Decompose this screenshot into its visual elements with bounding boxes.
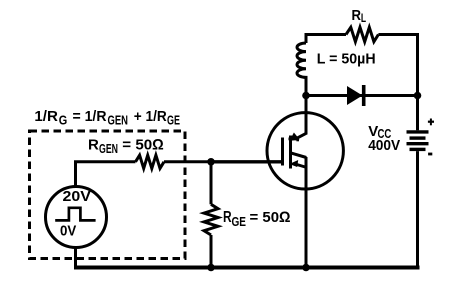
svg-text:= 1/R: = 1/R <box>73 108 107 125</box>
svg-text:L: L <box>361 11 366 25</box>
wire gate node to transistor gate <box>211 160 282 163</box>
node D (source to rail) <box>302 264 310 272</box>
svg-text:G: G <box>59 114 68 128</box>
wire diode row <box>306 94 418 97</box>
svg-text:GEN: GEN <box>99 142 118 156</box>
svg-text:20V: 20V <box>63 188 91 205</box>
substrate diagonal <box>291 153 307 158</box>
label R_GEN = 50 ohm <box>88 137 164 156</box>
svg-text:+ 1/R: + 1/R <box>134 108 167 125</box>
node A (inductor/diode/drain junction) <box>302 92 310 100</box>
wire top loop left segment <box>306 35 346 44</box>
transistor Q1 (MOSFET) <box>267 96 343 268</box>
inductor L1 <box>297 43 306 96</box>
resistor R_L <box>346 27 378 41</box>
source wire <box>305 157 308 268</box>
resistor R_GE <box>204 204 218 235</box>
drain arrowhead <box>289 133 299 142</box>
svg-text:GE: GE <box>167 114 180 128</box>
wire bottom rail <box>74 266 420 270</box>
svg-text:GE: GE <box>232 215 247 229</box>
node B (diode/battery junction) <box>414 92 422 100</box>
drain diagonal <box>295 133 306 139</box>
wire generator to R_GEN <box>76 162 136 184</box>
svg-text:= 50Ω: = 50Ω <box>122 137 164 154</box>
drain contact stub <box>289 137 300 140</box>
source arrowhead <box>289 160 298 167</box>
svg-text:400V: 400V <box>368 137 400 154</box>
resistor R_GEN <box>136 155 165 168</box>
label R_GE = 50 ohm <box>223 209 291 229</box>
gate bar <box>281 138 284 166</box>
channel bar <box>289 136 292 169</box>
wire R_GEN to gate node <box>164 160 211 163</box>
drain wire <box>305 96 308 135</box>
label formula 1/RG = 1/RGEN + 1/RGE <box>34 108 180 128</box>
source diagonal <box>294 164 307 168</box>
label R_L <box>352 7 367 25</box>
svg-text:R: R <box>352 7 362 24</box>
svg-text:0V: 0V <box>60 223 76 240</box>
diode D1 <box>347 85 364 106</box>
svg-text:GEN: GEN <box>108 114 129 128</box>
wire top right segment after R_L <box>378 35 417 97</box>
dashed box around generator network <box>30 131 186 259</box>
label - terminal <box>428 153 432 156</box>
wire gate node down to R_GE <box>210 162 213 205</box>
label + terminal <box>428 119 434 126</box>
wire R_GE to rail <box>210 235 213 268</box>
body circle <box>267 113 343 189</box>
node E (gate node) <box>207 158 215 166</box>
svg-text:L = 50µH: L = 50µH <box>317 51 376 68</box>
label V_CC <box>368 123 391 141</box>
node C (R_GE to rail) <box>207 264 215 272</box>
svg-text:= 50Ω: = 50Ω <box>250 209 291 226</box>
step below stub <box>296 139 299 141</box>
battery VCC <box>407 96 429 270</box>
pulse generator V1 <box>46 162 107 270</box>
svg-text:1/R: 1/R <box>34 108 58 125</box>
svg-text:R: R <box>88 137 99 154</box>
